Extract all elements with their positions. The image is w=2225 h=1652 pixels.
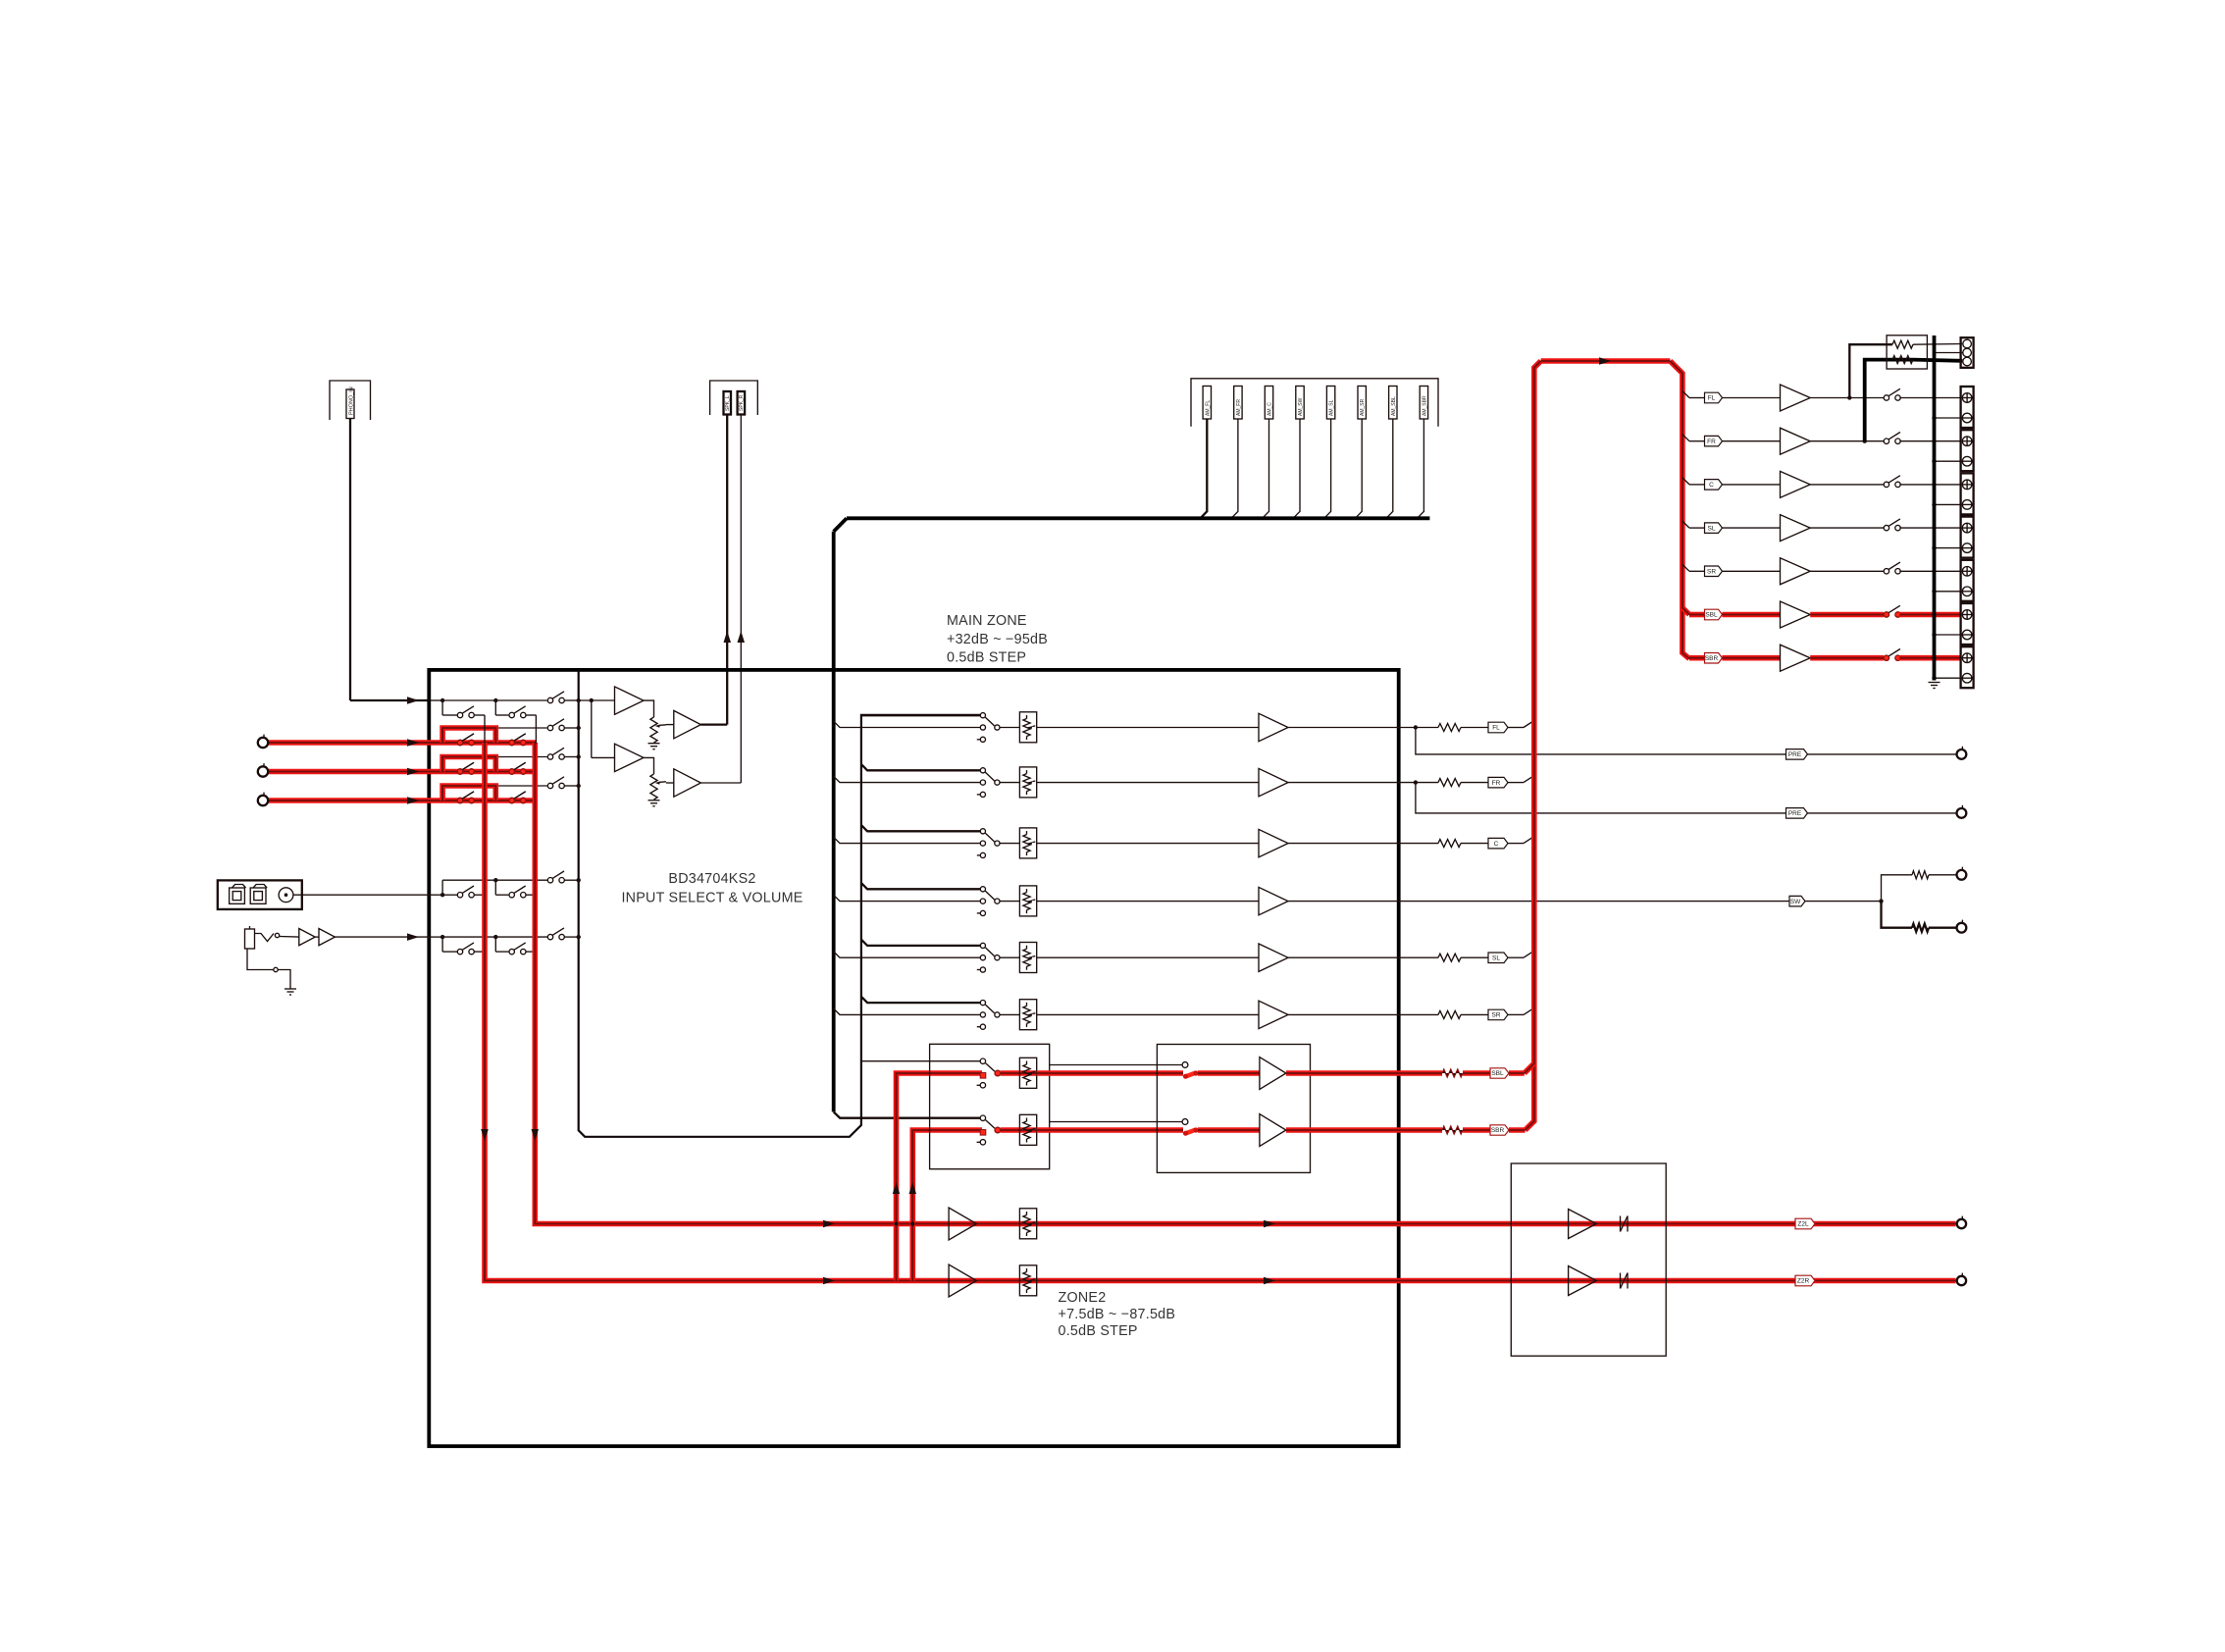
wire chip output row C bbox=[861, 825, 980, 831]
svg-text:AM_FR: AM_FR bbox=[1236, 399, 1242, 416]
rca SW1 bbox=[1957, 870, 1967, 880]
wire input row 6 segment bbox=[429, 936, 442, 938]
wire T1 to pot bbox=[644, 700, 654, 717]
connector digital input box bbox=[218, 880, 302, 909]
wire DSP bus to zone2 switch B contact bbox=[834, 1111, 981, 1117]
rca SW2 bbox=[1957, 923, 1967, 933]
buffer zone2 1 bbox=[1260, 1058, 1286, 1090]
contact circle sleeve bbox=[274, 967, 278, 971]
svg-text:+7.5dB ~ −87.5dB: +7.5dB ~ −87.5dB bbox=[1059, 1307, 1176, 1322]
junction row 4 at first tee bbox=[440, 799, 444, 802]
connector coax jack bbox=[279, 888, 293, 903]
resistor bridge upper bbox=[1892, 340, 1913, 348]
wire tag to buffer SL bbox=[1722, 527, 1780, 529]
wire zone2 resistor to tag 1 bbox=[1463, 1070, 1490, 1076]
connector optical 2 bbox=[250, 888, 266, 903]
arrow zone2 riser L bbox=[893, 1182, 900, 1194]
wire tag to buffer FR bbox=[1722, 440, 1780, 442]
tag speaker SBL bbox=[1705, 609, 1723, 620]
wire tag to buffer C bbox=[1722, 484, 1780, 486]
switch main zone C bbox=[980, 829, 985, 834]
wire highlighted input row 3 bbox=[268, 769, 536, 775]
wire row 1 continue bbox=[442, 699, 495, 701]
wire dsp bus tap row FR bbox=[834, 776, 981, 782]
wire zone2 buffer contact lead 2 bbox=[1050, 1121, 1183, 1123]
wire chip output row FL bbox=[861, 714, 980, 716]
attenuator marks zone2 1 bbox=[1620, 1216, 1622, 1232]
arrow zone bus B down bbox=[532, 1129, 540, 1141]
ground headphone jack bbox=[285, 988, 296, 990]
buffer speaker C bbox=[1781, 471, 1811, 497]
arrow zone2 row bbox=[823, 1277, 835, 1284]
wire row 5 switch B to zone bus B bbox=[526, 894, 536, 896]
wire CN103 pin 5 to bus bbox=[1324, 419, 1331, 518]
buffer zone2 line 2 bbox=[949, 1265, 976, 1297]
junction row 5 chip bus bbox=[577, 878, 581, 882]
wire input row 4 segment bbox=[268, 800, 442, 801]
rca preout FL bbox=[1957, 749, 1967, 759]
wire row 4 switch B to zone bus B bbox=[526, 800, 536, 801]
wire row 5 switch C to chip bbox=[564, 879, 578, 881]
wire branch SBR bbox=[1689, 655, 1705, 661]
buffer main zone SW bbox=[1259, 887, 1288, 914]
arrow zone bus A down bbox=[481, 1129, 489, 1141]
svg-text:SL: SL bbox=[1708, 525, 1716, 532]
wire CN103 pin 6 to bus bbox=[1355, 419, 1362, 518]
svg-text:AM_FL: AM_FL bbox=[1205, 400, 1211, 416]
wire T2 to pot R bbox=[644, 757, 654, 774]
resistor zone2 out 2 bbox=[1442, 1126, 1463, 1134]
connector CN101 bracket bbox=[330, 381, 371, 420]
wire headphone L output bbox=[726, 415, 728, 725]
wire CN101 to input row bbox=[349, 419, 351, 701]
switch row 1 select B bbox=[509, 712, 514, 717]
connector CN101 pin 1 bbox=[346, 389, 354, 419]
wire zone2 buffer contact lead 1 bbox=[1050, 1064, 1183, 1066]
junction row 1 chip bus bbox=[577, 698, 581, 702]
ground pot L bbox=[648, 743, 660, 745]
wire buffer to relay SR bbox=[1810, 570, 1884, 572]
wire relay to terminal SL bbox=[1899, 527, 1960, 529]
tag speaker SBR bbox=[1705, 653, 1723, 664]
wire vca to buffer SR bbox=[1037, 1013, 1259, 1015]
wire terminal minus to bus SL bbox=[1935, 547, 1963, 549]
wire buffer out FR bbox=[1288, 782, 1416, 784]
connector optical 1 bbox=[230, 888, 245, 903]
svg-text:MAIN ZONE: MAIN ZONE bbox=[947, 613, 1027, 629]
wire preout FL bbox=[1416, 728, 1957, 754]
terminal block SR bbox=[1961, 560, 1974, 601]
wire bridge lower under resistor bbox=[1892, 358, 1913, 362]
svg-text:SBL: SBL bbox=[1491, 1070, 1504, 1077]
junction preout FL bbox=[1414, 725, 1418, 729]
wire DSP bus vertical bbox=[832, 532, 836, 1112]
wire row 6 to switch C bbox=[495, 936, 547, 938]
wire row 4 switch C to chip bbox=[564, 785, 578, 787]
wire row 3 between switches bbox=[442, 771, 457, 773]
wire zone bus A core bbox=[485, 743, 1956, 1281]
pot headphone R bbox=[650, 774, 657, 800]
wire SBL tag to bus bbox=[1509, 1070, 1525, 1076]
switch row 6 select B bbox=[509, 949, 514, 954]
switch main zone SW bbox=[980, 887, 985, 892]
wire jog row 2 to switch C bbox=[495, 727, 547, 729]
wiper arrow L bbox=[655, 724, 661, 727]
wire headphone R output bbox=[740, 415, 742, 784]
junction row 1 at first tee bbox=[440, 698, 444, 702]
wire relay to terminal FL bbox=[1899, 397, 1960, 399]
junction ground bus FL bbox=[1932, 416, 1936, 420]
switch row 2 select B bbox=[509, 740, 514, 745]
svg-text:SBR: SBR bbox=[1491, 1127, 1505, 1134]
wire highlighted input row 2 bbox=[268, 740, 536, 746]
resistor output C bbox=[1438, 840, 1461, 848]
wire terminal minus to bus SBR bbox=[1935, 677, 1963, 679]
switch zone2 buffer 2 bbox=[1182, 1119, 1188, 1125]
switch row 2 select A bbox=[457, 740, 462, 745]
wire dsp bus tap row SL bbox=[834, 952, 981, 957]
arrow zone2 row 2nd bbox=[1264, 1277, 1275, 1284]
vca main zone SL bbox=[1019, 943, 1036, 973]
resistor output SL bbox=[1438, 954, 1461, 961]
wire row 2 between switches bbox=[442, 742, 457, 744]
switch row 3 select C bbox=[547, 754, 552, 759]
wire branch FR bbox=[1682, 435, 1689, 441]
switch row 6 select C bbox=[547, 934, 552, 939]
arrow input row 2 bbox=[407, 739, 419, 747]
switch highlight row 3 A bbox=[457, 769, 462, 774]
wire ground bus vertical bbox=[1933, 336, 1937, 681]
wire relay to terminal SBR bbox=[1899, 655, 1960, 661]
switch relay C bbox=[1884, 482, 1889, 487]
wire input row 5 segment bbox=[429, 894, 442, 896]
arrow headphone R up bbox=[738, 631, 746, 643]
wire chip bus to T1 bbox=[579, 699, 615, 701]
wire zone2 buffer out 2 bbox=[1286, 1127, 1442, 1133]
wire vca to buffer SW bbox=[1037, 901, 1259, 903]
tag C bbox=[1461, 843, 1488, 845]
buffer zone2 driver 1 bbox=[1569, 1210, 1597, 1239]
switch relay SL bbox=[1884, 525, 1889, 530]
wire chip output row SL bbox=[861, 940, 980, 946]
wire switch to vca SL bbox=[1000, 956, 1019, 958]
wire buffer to relay FL bbox=[1810, 397, 1884, 399]
wire row 1 switch B to zone bus B bbox=[526, 714, 536, 716]
arrow zone2 row bbox=[823, 1220, 835, 1227]
switch highlight row 2 A bbox=[457, 740, 462, 745]
buffer speaker FL bbox=[1781, 385, 1811, 411]
junction FR bridge bbox=[1863, 439, 1867, 443]
wire zone2 top contact 1 bbox=[861, 1060, 980, 1062]
wire FL to red bus bbox=[1508, 727, 1524, 729]
wire relay to terminal SR bbox=[1899, 570, 1960, 572]
wire jog row 3 to switch C bbox=[495, 756, 547, 758]
wire vca to buffer SL bbox=[1037, 956, 1259, 958]
wire row 6 jog down A bbox=[441, 937, 443, 952]
wire buffer link bbox=[315, 936, 319, 938]
junction ground bus FR bbox=[1932, 459, 1936, 463]
wire to resistor FR bbox=[1416, 782, 1438, 784]
svg-text:PRE: PRE bbox=[1788, 810, 1802, 817]
wire row 3 switch C to chip bbox=[564, 756, 578, 758]
wire tag to buffer SBL bbox=[1722, 612, 1780, 618]
switch row 2 select C bbox=[547, 725, 552, 730]
arrow red bus top bbox=[1599, 357, 1611, 365]
wire SL to red bus bbox=[1508, 956, 1524, 958]
svg-text:SPK_R: SPK_R bbox=[739, 394, 745, 411]
terminal block FR bbox=[1961, 430, 1974, 471]
junction row 3 jog bbox=[493, 754, 497, 758]
connector CN102 pin L bbox=[724, 391, 732, 415]
wire CN103 pin 3 to bus bbox=[1263, 419, 1269, 518]
wire zone2 pole to vca 2 bbox=[1001, 1127, 1020, 1133]
switch highlight row 4 B bbox=[509, 798, 514, 802]
wire row 3 jog up bbox=[441, 757, 443, 772]
wire dsp bus tap row SR bbox=[834, 1008, 981, 1014]
junction riser L bbox=[894, 1221, 898, 1225]
ground speaker return bbox=[1929, 682, 1940, 684]
svg-text:FR: FR bbox=[1707, 439, 1716, 445]
tag SW bbox=[1789, 896, 1805, 906]
wire row 6 switch C to chip bbox=[564, 936, 578, 938]
wire zone bus B core bbox=[535, 715, 536, 743]
wire tag to buffer SBR bbox=[1722, 655, 1780, 661]
buffer speaker SBL bbox=[1781, 601, 1811, 628]
svg-text:SBL: SBL bbox=[1705, 612, 1718, 619]
svg-text:AM_SW: AM_SW bbox=[1298, 397, 1304, 416]
svg-text:FL: FL bbox=[1708, 395, 1716, 402]
junction row 6 second tee bbox=[493, 935, 497, 939]
wire zone bus A red bbox=[485, 743, 1956, 1281]
arrow input row 1 bbox=[407, 697, 419, 704]
wire preout FR bbox=[1416, 783, 1957, 813]
rca jack input J2 bbox=[258, 766, 268, 776]
wire terminal minus to bus SBL bbox=[1935, 634, 1963, 636]
block volume section outline bbox=[429, 670, 1398, 1446]
block zone2 input select box bbox=[930, 1044, 1050, 1168]
switch relay SBR bbox=[1884, 655, 1889, 660]
rca zone2 out 1 bbox=[1957, 1219, 1966, 1228]
buffer main zone FR bbox=[1259, 768, 1288, 796]
connector CN102 pin R bbox=[738, 391, 746, 415]
wire row 1 switch A to zone bus A bbox=[474, 714, 485, 716]
wire highlighted jog row 2 bbox=[442, 728, 495, 743]
buffer zone2 driver 2 bbox=[1569, 1266, 1597, 1296]
wire relay to terminal C bbox=[1899, 484, 1960, 486]
switch main zone FR bbox=[980, 768, 985, 773]
wire zone2 pole to vca 1 bbox=[1001, 1070, 1020, 1076]
svg-text:AM_C: AM_C bbox=[1268, 402, 1273, 416]
wire jack tip contact bbox=[255, 934, 275, 942]
connector CN103 pin 2 bbox=[1234, 387, 1242, 420]
wire T4 to phones R bbox=[700, 782, 741, 784]
svg-text:Z2L: Z2L bbox=[1797, 1221, 1809, 1228]
ic BD34704KS2 outline bbox=[579, 670, 981, 1137]
wire terminal minus to bus SR bbox=[1935, 591, 1963, 593]
junction ground bus C bbox=[1932, 502, 1936, 506]
connector CN103 pin 1 bbox=[1203, 387, 1211, 420]
buffer zone2 2 bbox=[1260, 1114, 1286, 1147]
tag FL bbox=[1461, 727, 1488, 729]
junction row 5 jog bbox=[493, 878, 497, 882]
wire red bus to right column bbox=[1670, 361, 1689, 659]
rca jack input J1 bbox=[258, 738, 268, 748]
wire SW lower to jack bbox=[1929, 927, 1956, 929]
tag FR bbox=[1461, 782, 1488, 784]
wire headphone row to box bbox=[335, 936, 429, 938]
wire zone2 riser R bbox=[912, 1130, 982, 1281]
wire sleeve to ground bbox=[278, 970, 290, 990]
wire CN103 pin 7 to bus bbox=[1386, 419, 1393, 518]
junction row 3 chip bus bbox=[577, 754, 581, 758]
junction row 1 second tee bbox=[493, 698, 497, 702]
wire FR to bridge resistor bbox=[1865, 360, 1892, 441]
switch row 3 select A bbox=[457, 769, 462, 774]
wire branch SR bbox=[1682, 564, 1689, 571]
wire row 3 switch B to zone bus B bbox=[526, 771, 536, 773]
wire chip output row FR bbox=[861, 764, 980, 770]
wire bus2 to T2 bbox=[592, 756, 615, 758]
wire row 1 jog down B bbox=[494, 700, 496, 715]
wire zone2 vca out 2 bbox=[1037, 1127, 1183, 1133]
wire bus2 vertical bbox=[591, 700, 593, 757]
wire dsp bus tap row FL bbox=[834, 721, 981, 727]
wire vca to buffer FR bbox=[1037, 782, 1259, 784]
tag PRE-FR bbox=[1786, 808, 1808, 819]
switch row 5 select B bbox=[509, 893, 514, 898]
junction row 5 at first tee bbox=[440, 893, 444, 897]
junction riser R bbox=[910, 1221, 914, 1225]
switch main zone SR bbox=[980, 1001, 985, 1006]
buffer speaker SL bbox=[1781, 515, 1811, 542]
wire digital row bbox=[293, 894, 429, 896]
arrow zone2 row 2nd bbox=[1264, 1220, 1275, 1227]
buffer T1 bbox=[615, 687, 645, 714]
vca zone2 2 bbox=[1019, 1127, 1036, 1133]
tag SL bbox=[1461, 956, 1488, 958]
junction row 6 chip bus bbox=[577, 935, 581, 939]
junction FL bridge bbox=[1847, 395, 1851, 399]
wire CN103 pin 1 to bus bbox=[1201, 419, 1208, 518]
switch zone2 1 bbox=[980, 1058, 985, 1063]
connector CN103 pin 7 bbox=[1389, 387, 1397, 420]
switch relay FL bbox=[1884, 395, 1889, 400]
junction SW split bbox=[1879, 899, 1883, 903]
vca zone2 1 bbox=[1019, 1070, 1036, 1076]
junction headphone bus bbox=[590, 698, 594, 702]
resistor output FL bbox=[1438, 724, 1461, 732]
rca jack input J3 bbox=[258, 796, 268, 805]
connector CN103 pin 5 bbox=[1326, 387, 1334, 420]
switch row 1 select C bbox=[547, 697, 552, 702]
wire zone2 buffer in 1 bbox=[1198, 1070, 1260, 1076]
wire tag to buffer SR bbox=[1722, 570, 1780, 572]
wire row 6 switch B to zone bus B bbox=[526, 951, 536, 953]
connector CN103 pin 3 bbox=[1265, 387, 1272, 420]
vca main zone SR bbox=[1019, 1000, 1036, 1030]
svg-text:AM_SBR: AM_SBR bbox=[1422, 395, 1427, 416]
buffer speaker SR bbox=[1781, 558, 1811, 585]
vca main zone SW bbox=[1019, 886, 1036, 916]
wire jog row 5 to switch C bbox=[495, 879, 547, 881]
terminal block FL bbox=[1961, 387, 1974, 428]
wire row 5 between switches bbox=[442, 894, 457, 896]
buffer T2 bbox=[615, 744, 645, 771]
svg-text:FL: FL bbox=[1492, 725, 1500, 732]
wire row 2 switch A to zone bus A bbox=[474, 742, 485, 744]
wire branch SL bbox=[1682, 521, 1689, 528]
wire buffer out C bbox=[1288, 843, 1438, 845]
junction ground bus SR bbox=[1932, 590, 1936, 594]
junction row 3 at first tee bbox=[440, 769, 444, 773]
wire SBR tag to bus bbox=[1509, 1127, 1526, 1133]
switch row 1 select A bbox=[457, 712, 462, 717]
vca main zone FR bbox=[1019, 767, 1036, 798]
resistor SW upper bbox=[1912, 871, 1929, 879]
tag zone2 1 bbox=[1490, 1068, 1509, 1078]
terminal block SL bbox=[1961, 517, 1974, 558]
wire switch to vca SW bbox=[1000, 901, 1019, 903]
wire branch C bbox=[1682, 478, 1689, 485]
switch row 5 select A bbox=[457, 893, 462, 898]
wire switch to vca C bbox=[1000, 843, 1019, 845]
pot headphone L bbox=[650, 717, 657, 743]
wire pot L wiper to T3 bbox=[666, 724, 674, 726]
switch zone2 buffer 1 bbox=[1182, 1062, 1188, 1068]
terminal block SBR bbox=[1961, 646, 1974, 688]
wire buffer out FL bbox=[1288, 727, 1416, 729]
tag speaker SR bbox=[1705, 566, 1723, 577]
buffer T3 bbox=[674, 710, 701, 738]
svg-text:INPUT SELECT & VOLUME: INPUT SELECT & VOLUME bbox=[621, 891, 802, 906]
arrow zone2 riser R bbox=[909, 1182, 917, 1194]
tag speaker C bbox=[1705, 480, 1723, 490]
wire SW row long bbox=[1288, 901, 1792, 903]
wire SR to red bus bbox=[1508, 1013, 1524, 1015]
tag speaker SL bbox=[1705, 523, 1723, 534]
switch relay SR bbox=[1884, 569, 1889, 574]
wire input row 3 segment bbox=[268, 771, 442, 773]
terminal block C bbox=[1961, 473, 1974, 514]
buffer headphone pre 1 bbox=[299, 929, 315, 946]
switch relay SBL bbox=[1884, 612, 1889, 617]
svg-text:ZONE2: ZONE2 bbox=[1059, 1290, 1107, 1306]
wire C to red bus bbox=[1508, 843, 1524, 845]
wire row 1 switch C to chip bbox=[564, 699, 578, 701]
tag speaker FR bbox=[1705, 436, 1723, 446]
wire zone2 riser L bbox=[897, 1073, 983, 1281]
wire branch FL bbox=[1682, 391, 1689, 398]
wire highlighted jog row 3 bbox=[442, 757, 495, 772]
wire row 4 jog up bbox=[441, 786, 443, 800]
wire FL to bridge resistor bbox=[1849, 344, 1892, 397]
connector headphone jack bbox=[245, 929, 255, 949]
terminal block bridge bbox=[1961, 337, 1974, 368]
switch highlight row 3 B bbox=[509, 769, 514, 774]
wire row 6 switch A to zone bus A bbox=[474, 951, 485, 953]
wire row 4 switch A to zone bus A bbox=[474, 800, 485, 801]
wire pot R wiper to T4 bbox=[666, 782, 674, 784]
resistor output FR bbox=[1438, 779, 1461, 787]
switch row 6 select A bbox=[457, 949, 462, 954]
tag zone2 out 2 bbox=[1795, 1275, 1815, 1286]
vca main zone C bbox=[1019, 828, 1036, 858]
wire relay to terminal FR bbox=[1899, 440, 1960, 442]
buffer speaker SBR bbox=[1781, 645, 1811, 671]
wire FR to red bus bbox=[1508, 782, 1524, 784]
switch row 3 select B bbox=[509, 769, 514, 774]
wire row 4 between switches bbox=[442, 800, 457, 801]
